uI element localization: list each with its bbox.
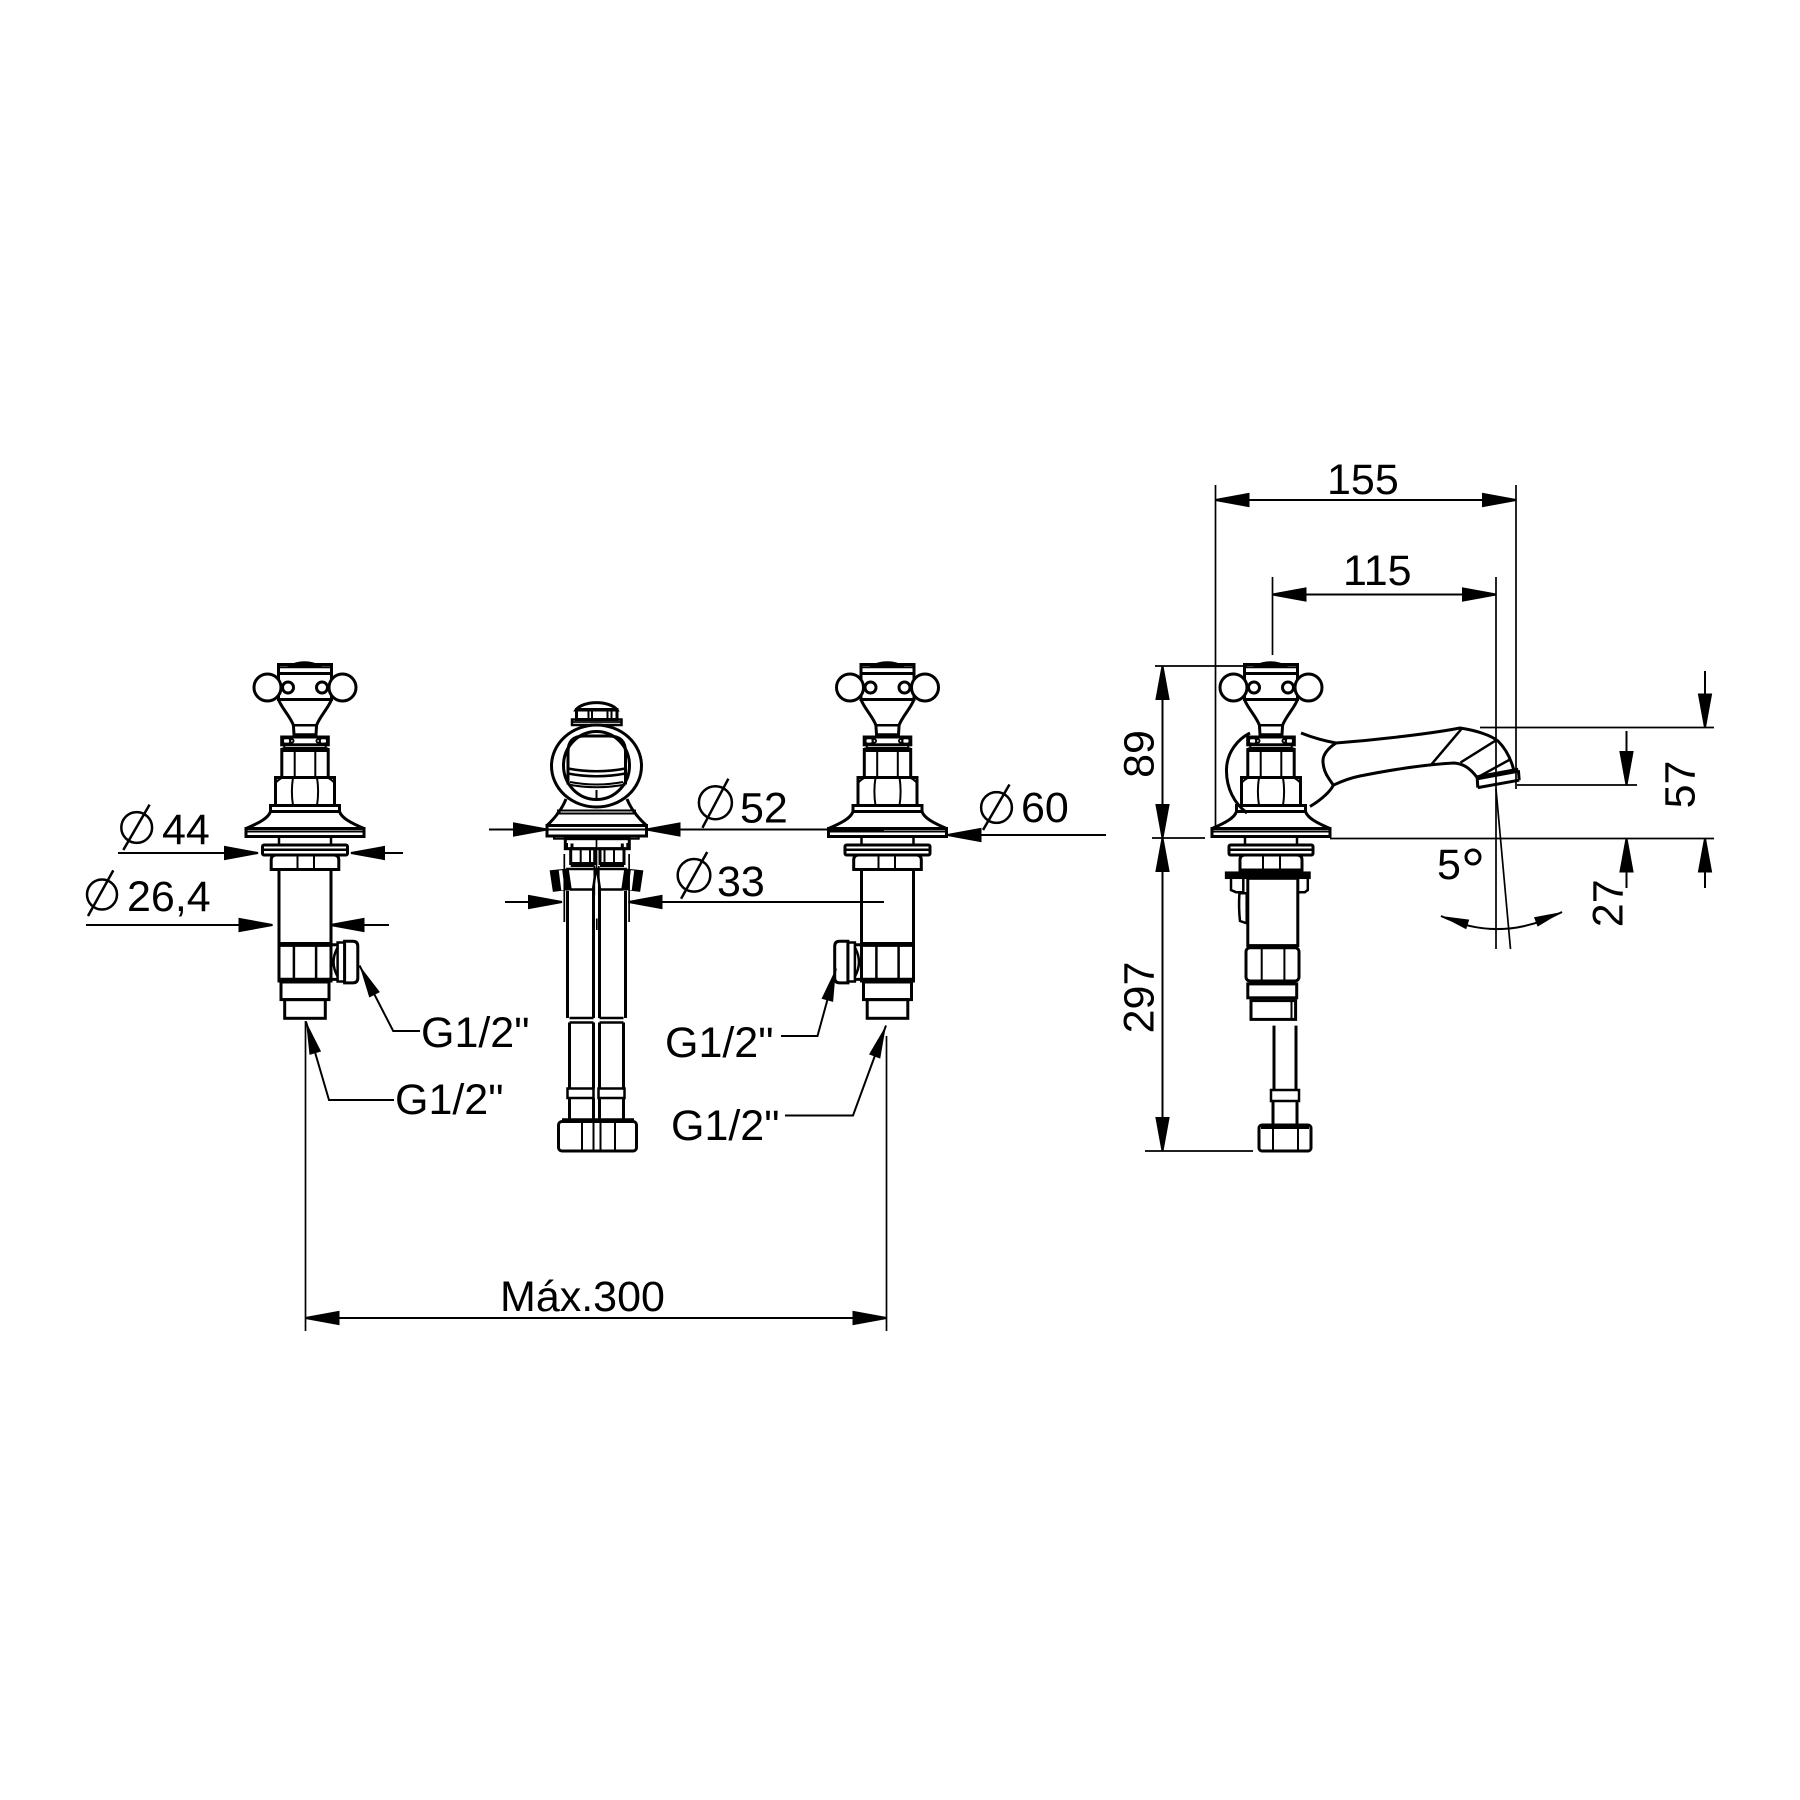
spout facet lines bbox=[1432, 728, 1511, 777]
spout root curve bbox=[1310, 743, 1336, 807]
tube joints bbox=[570, 1018, 624, 1023]
svg-text:44: 44 bbox=[162, 806, 210, 854]
svg-text:G1/2": G1/2" bbox=[421, 1009, 530, 1057]
hose bbox=[1274, 1026, 1296, 1090]
dim dia60 bbox=[948, 829, 1107, 841]
left valve handle and body top bbox=[246, 662, 364, 837]
svg-text:57: 57 bbox=[1656, 761, 1704, 809]
washer bbox=[1229, 845, 1313, 855]
nut shadow bands bbox=[571, 863, 595, 868]
spout underside bbox=[1333, 763, 1477, 785]
side view handle bbox=[1212, 662, 1330, 837]
left valve extension line down to Max.300 bbox=[305, 1021, 307, 1331]
spout tube end-on bbox=[568, 736, 626, 785]
svg-text:G1/2": G1/2" bbox=[671, 1102, 780, 1150]
left mounting nut bbox=[571, 849, 595, 864]
bottom hex nuts bbox=[559, 1122, 637, 1152]
dim 89 bbox=[1152, 666, 1247, 838]
adapter bbox=[1248, 984, 1297, 998]
leader G1/2 outlet left valve bbox=[360, 966, 421, 1032]
svg-text:27: 27 bbox=[1584, 879, 1632, 927]
dim 297 bbox=[1145, 838, 1253, 1151]
text dia 52 bbox=[699, 779, 732, 828]
right mounting nut bbox=[600, 849, 624, 864]
dim dia33 bbox=[505, 896, 884, 908]
spout ring outer bbox=[552, 725, 642, 807]
left wing nut bbox=[568, 869, 597, 890]
svg-text:89: 89 bbox=[1115, 730, 1163, 778]
svg-text:5: 5 bbox=[1437, 841, 1461, 889]
shank step bbox=[565, 839, 629, 849]
hose nut bbox=[1259, 1125, 1311, 1151]
dia33 extension ticks bbox=[563, 854, 565, 922]
text dia 33 bbox=[678, 852, 711, 899]
dim dia44 bbox=[118, 847, 403, 859]
dim dia26,4 bbox=[86, 919, 389, 931]
leader G1/2 bottom right valve bbox=[785, 1026, 886, 1116]
svg-text:52: 52 bbox=[740, 785, 788, 833]
text dia 44 bbox=[121, 805, 152, 850]
spout ring inner bbox=[564, 732, 630, 800]
spout bell base bbox=[547, 799, 647, 826]
right valve handle and body top bbox=[829, 662, 947, 837]
dim 155 bbox=[1216, 485, 1517, 826]
side view valve body chamber bbox=[1226, 733, 1250, 813]
shank bbox=[1248, 878, 1298, 945]
svg-text:60: 60 bbox=[1021, 784, 1069, 832]
ring centre line bbox=[596, 790, 598, 800]
dim dia52 bbox=[489, 824, 884, 836]
5 degree wedge bbox=[1441, 789, 1562, 949]
svg-text:G1/2": G1/2" bbox=[395, 1076, 504, 1124]
svg-text:26,4: 26,4 bbox=[127, 873, 211, 921]
hose collars bbox=[568, 1089, 594, 1099]
anti-rotation spacer plate bbox=[1226, 872, 1310, 878]
dim 57 bbox=[1330, 671, 1714, 888]
side view below-deck bbox=[1226, 837, 1313, 1152]
centre studs below ring bbox=[596, 836, 598, 868]
threaded shank bbox=[1245, 837, 1297, 846]
svg-text:G1/2": G1/2" bbox=[665, 1019, 774, 1067]
text dia 26,4 bbox=[87, 870, 117, 916]
svg-text:297: 297 bbox=[1115, 962, 1163, 1034]
aerator ring bbox=[1477, 770, 1518, 778]
text dia 60 bbox=[981, 785, 1012, 831]
right valve extension line down to Max.300 bbox=[886, 1036, 888, 1331]
side view spout outline bbox=[1301, 728, 1519, 807]
dim Max.300 bbox=[306, 1312, 887, 1324]
dim 115 bbox=[1273, 577, 1497, 949]
leader G1/2 bottom left valve bbox=[306, 1022, 394, 1101]
locknut bbox=[1240, 855, 1302, 870]
hoses lower bbox=[570, 1098, 624, 1120]
svg-text:33: 33 bbox=[717, 858, 765, 906]
flange lip bbox=[554, 836, 639, 839]
hoses bbox=[570, 1023, 624, 1089]
svg-text:115: 115 bbox=[1343, 547, 1412, 595]
nut base collar bbox=[572, 720, 622, 726]
acorn nut dome bbox=[576, 703, 617, 710]
leader G1/2 outlet right valve bbox=[781, 969, 836, 1037]
acorn nut hex bbox=[577, 710, 618, 720]
right wing nut bbox=[597, 869, 626, 890]
tail bbox=[1251, 1001, 1296, 1020]
right valve below-deck body (outlet to the left) bbox=[835, 837, 930, 1019]
dim 27 bbox=[1517, 731, 1637, 888]
svg-text:155: 155 bbox=[1327, 456, 1399, 504]
spout flange plate (dia 52) bbox=[547, 826, 647, 837]
supply tubes bbox=[568, 890, 626, 1019]
supply hex bbox=[1246, 948, 1299, 981]
svg-text:Máx.300: Máx.300 bbox=[500, 1273, 665, 1321]
left valve below-deck body bbox=[263, 837, 358, 1019]
